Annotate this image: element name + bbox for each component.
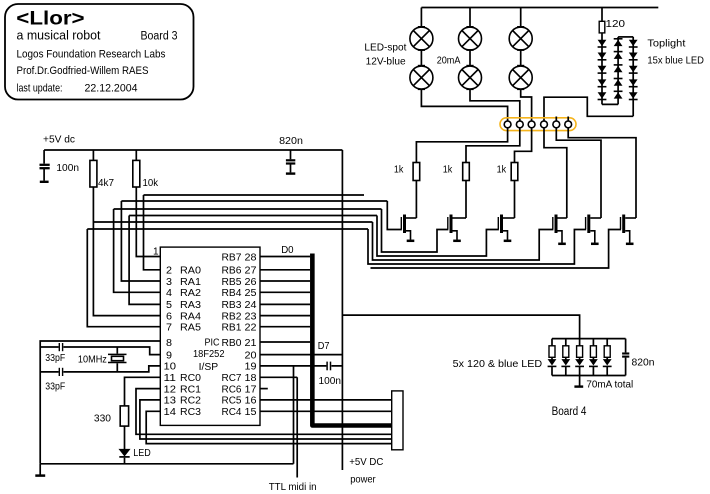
wire RA2 bus line: [114, 208, 382, 210]
svg-text:+5V DC: +5V DC: [349, 456, 383, 468]
svg-text:Board 4: Board 4: [552, 406, 587, 418]
wire lamp col1 to pin1: [421, 89, 507, 121]
transistor Q5: [586, 215, 601, 243]
diode toplight col1 D3: [598, 66, 607, 73]
ground Q1 source: [407, 240, 415, 243]
svg-text:13: 13: [164, 396, 177, 407]
ground board4 stem: [579, 376, 581, 386]
svg-text:5x 120 & blue LED: 5x 120 & blue LED: [453, 358, 543, 370]
svg-text:TTL midi in: TTL midi in: [269, 481, 317, 493]
resistor board4 12R #5 lead: [606, 339, 608, 346]
svg-text:I/SP: I/SP: [199, 362, 219, 373]
capacitor 820n(2) plate2: [622, 356, 629, 358]
svg-text:RA1: RA1: [180, 277, 201, 288]
wire board4 top rail: [552, 338, 626, 340]
wire +12V lamp rail: [421, 7, 658, 9]
wire RA2 to pin4: [114, 209, 161, 292]
connector J1 pin 2: [516, 121, 523, 128]
resistor board4 12R #2 lead: [565, 339, 567, 346]
svg-text:RC5: RC5: [222, 396, 242, 407]
connector J2 body: [392, 391, 403, 450]
diode toplight col3 D12: [629, 53, 638, 60]
svg-text:10k: 10k: [143, 177, 159, 189]
wire pin 14 RC3 to connector: [146, 411, 392, 443]
ground board4 bar: [574, 385, 583, 387]
wire gate feed Q2: [382, 209, 449, 252]
svg-text:Toplight: Toplight: [647, 37, 685, 49]
svg-text:33pF: 33pF: [45, 380, 65, 392]
wire lamp col3 to pin3: [521, 89, 532, 121]
svg-text:330: 330: [94, 413, 111, 425]
svg-text:RC3: RC3: [180, 407, 201, 418]
wire board4 #1 bottom: [551, 366, 553, 375]
wire toplight col3 to pin4: [544, 97, 633, 121]
diode board4 blue LED #4: [589, 359, 598, 366]
diode toplight col1 D4: [598, 79, 607, 86]
lamp col1 tick a: [418, 26, 425, 28]
wire pin 23 to D bus: [260, 315, 310, 317]
diode toplight col2 D6: [614, 39, 623, 46]
svg-text:11: 11: [164, 373, 177, 384]
wire board4 #2 mid: [565, 357, 567, 360]
svg-text:1k: 1k: [497, 164, 507, 176]
resistor board4 12R #3 body: [577, 346, 583, 358]
connector J1 oval: [500, 118, 576, 131]
svg-text:4: 4: [166, 288, 172, 299]
svg-text:12V-blue: 12V-blue: [366, 56, 406, 68]
resistor R 1k #1 body: [413, 163, 420, 181]
wire gate feed Q6: [371, 230, 622, 269]
lamp L3 (col2 upper): [459, 27, 482, 50]
LED D1 triangle: [119, 449, 129, 456]
wire pin 15 to connector: [260, 410, 392, 412]
svg-text:2: 2: [166, 266, 172, 277]
crystal X1 plate bottom: [108, 362, 127, 364]
wire pin 11 RC0 to 330R: [125, 377, 161, 406]
svg-text:last update:: last update:: [17, 83, 63, 95]
svg-text:RB0: RB0: [222, 338, 242, 349]
svg-text:20: 20: [245, 350, 257, 361]
wire toplight col2 stem: [617, 37, 619, 105]
svg-text:33pF: 33pF: [45, 352, 65, 364]
capacitor 820n(2) lead: [625, 339, 627, 353]
capacitor 33pF upper bar1: [58, 343, 60, 351]
svg-text:<Llor>: <Llor>: [16, 7, 84, 29]
wire pin4 to Q4 drain: [544, 128, 567, 218]
svg-text:RC2: RC2: [180, 396, 201, 407]
wire lamp col2 to pin2: [470, 89, 520, 121]
wire pin 22 to D bus: [260, 326, 310, 328]
wire +5V to board4: [342, 315, 579, 339]
svg-text:a musical robot: a musical robot: [17, 28, 101, 43]
wire board4 #2 bottom: [565, 366, 567, 375]
lamp L5 (col3 upper): [509, 27, 532, 50]
svg-text:20mA: 20mA: [437, 55, 461, 67]
wire toplight bottom link: [602, 103, 618, 105]
lamp L6 (col3 lower): [509, 66, 532, 89]
svg-text:6: 6: [166, 311, 172, 322]
resistor R 1k #2 body: [463, 163, 470, 181]
connector J1 pin 3: [528, 121, 535, 128]
lamp col2 tick c: [466, 65, 473, 67]
ground Q4 source: [558, 243, 566, 246]
resistor R 120 top lead: [601, 8, 603, 22]
capacitor 100n plate2: [40, 167, 50, 169]
wire 1k #3 to drain: [514, 181, 516, 219]
resistor R 10k top lead: [135, 150, 137, 160]
svg-text:power: power: [350, 473, 376, 485]
bus D0-D7 thick: [312, 254, 393, 426]
wire gate feed Q3: [377, 216, 499, 257]
svg-text:RB5: RB5: [222, 277, 242, 288]
svg-text:24: 24: [245, 300, 257, 311]
wire 10k to pin1 MCLR: [136, 187, 160, 257]
wire lamp col2 mid stem: [469, 50, 471, 66]
wire toplight col1 stem: [601, 33, 603, 105]
svg-text:Logos Foundation Research Labs: Logos Foundation Research Labs: [17, 49, 166, 61]
wire pin 24 to D bus: [260, 303, 310, 305]
diode toplight col3 D11: [629, 40, 638, 47]
lamp col3 tick b: [517, 49, 524, 51]
svg-text:RC0: RC0: [180, 373, 201, 384]
connector J1 pin 4: [541, 121, 548, 128]
diode toplight col2 D10: [614, 91, 623, 98]
wire RA3 bus line: [129, 215, 377, 217]
wire toplight col3 stem: [632, 37, 634, 116]
capacitor 820n plate2: [286, 162, 295, 164]
wire pin 8 VSS to ground: [40, 341, 160, 464]
wire pin 19 VSS (100n): [260, 365, 342, 367]
capacitor 100n end bar: [40, 181, 49, 183]
svg-text:27: 27: [245, 266, 257, 277]
wire pin 20 VDD to +5V: [260, 354, 342, 356]
lamp col1 tick c: [418, 65, 425, 67]
wire pin 28 to D bus: [260, 256, 310, 258]
svg-text:RC7: RC7: [222, 373, 242, 384]
svg-text:100n: 100n: [319, 375, 342, 387]
lamp col3 tick d: [517, 88, 524, 90]
svg-text:RB7: RB7: [222, 252, 242, 263]
wire pin 17 stub: [260, 388, 268, 390]
wire pin5 to Q5 drain: [556, 128, 601, 218]
svg-text:25: 25: [245, 288, 257, 299]
wire pin 27 to D bus: [260, 269, 310, 271]
diode toplight col3 D14: [629, 79, 638, 86]
resistor board4 12R #5 body: [604, 346, 610, 358]
svg-text:RA0: RA0: [180, 266, 201, 277]
capacitor 820n lead: [290, 150, 292, 159]
diode toplight col3 D13: [629, 66, 638, 73]
lamp col2 tick d: [466, 88, 473, 90]
wire board4 #4 bottom: [592, 366, 594, 375]
svg-text:RC1: RC1: [180, 384, 201, 395]
wire board4 #5 bottom: [606, 366, 608, 375]
wire ground rail: [40, 463, 293, 465]
diode toplight col1 D1: [598, 40, 607, 47]
svg-text:LED: LED: [133, 447, 151, 459]
capacitor 33pF upper bar2: [62, 343, 64, 351]
wire pin6 stub up: [567, 117, 569, 122]
lamp col3 tick c: [517, 65, 524, 67]
ground Q5 source: [591, 243, 599, 246]
capacitor 100n plate1: [40, 164, 50, 166]
wire lamp col2 top stem: [469, 8, 471, 28]
wire 1k #2 to drain: [465, 181, 467, 219]
diode toplight col2 D9: [614, 79, 623, 86]
lamp L4 (col2 lower): [459, 66, 482, 89]
svg-text:15: 15: [245, 407, 257, 418]
wire board4 #3 bottom: [579, 366, 581, 375]
wire RA3 to pin5: [129, 216, 160, 305]
svg-text:LED-spot: LED-spot: [364, 41, 406, 53]
wire toplight top link: [618, 36, 633, 38]
svg-text:26: 26: [245, 277, 257, 288]
connector J1 pin 6: [565, 121, 572, 128]
wire board4 #3 mid: [579, 357, 581, 360]
svg-text:1: 1: [153, 247, 159, 258]
transistor Q4: [553, 215, 567, 243]
wire RA5 to pin7: [87, 229, 160, 327]
diode toplight col3 D15: [629, 92, 638, 99]
ground bar: [35, 474, 45, 477]
crystal X1 link: [116, 347, 118, 372]
ground stem: [39, 464, 41, 475]
wire 330R to LED: [124, 426, 126, 449]
svg-text:15x blue LED: 15x blue LED: [647, 54, 704, 66]
svg-text:100n: 100n: [56, 162, 79, 174]
title box frame: [5, 4, 194, 100]
svg-text:12: 12: [164, 384, 177, 395]
svg-text:Prof.Dr.Godfried-Willem RAES: Prof.Dr.Godfried-Willem RAES: [17, 65, 149, 77]
svg-text:3: 3: [166, 277, 172, 288]
resistor R 10k body: [133, 160, 140, 187]
diode board4 blue LED #5: [603, 359, 612, 366]
wire board4 #1 mid: [551, 357, 553, 360]
svg-text:9: 9: [166, 350, 172, 361]
svg-text:820n: 820n: [279, 135, 303, 147]
wire lamp col3 mid stem: [520, 50, 522, 66]
wire pin 21 to D bus: [260, 341, 310, 343]
resistor board4 12R #1 lead: [551, 339, 553, 346]
capacitor 820n plate1: [286, 159, 295, 161]
wire pin6 to Q6 drain: [568, 128, 636, 218]
lamp L2 (col1 lower): [410, 66, 433, 89]
wire RA0 to pin2: [144, 195, 161, 270]
LED D1 cathode bar: [119, 456, 129, 458]
resistor R 4k7 top lead: [92, 150, 94, 160]
wire pin2 to 1k R2: [466, 128, 520, 163]
wire RA1 bus line: [121, 200, 387, 202]
wire pin 16 to connector: [260, 399, 392, 401]
wire pin 13 RC2 to connector: [140, 400, 392, 439]
svg-text:21: 21: [245, 338, 257, 349]
lamp col1 tick b: [418, 49, 425, 51]
svg-text:RA3: RA3: [180, 300, 201, 311]
wire RA4 bus line: [93, 221, 372, 223]
lamp col3 tick a: [517, 26, 524, 28]
svg-text:10MHz: 10MHz: [78, 353, 107, 365]
wire gate feed Q4: [373, 222, 554, 260]
wire 4k7 to pin6 RA4: [93, 187, 160, 316]
svg-text:RB6: RB6: [222, 266, 242, 277]
wire +5V rail: [44, 149, 342, 151]
wire gate feed Q1: [387, 201, 402, 230]
svg-text:RC4: RC4: [222, 407, 242, 418]
capacitor 100n(2) bar1: [326, 362, 328, 371]
transistor Q2: [448, 215, 466, 240]
transistor Q6: [621, 215, 637, 243]
svg-text:16: 16: [245, 396, 257, 407]
svg-text:RC6: RC6: [222, 384, 242, 395]
capacitor 820n end bar: [286, 172, 295, 174]
wire pin 12 RC1 to connector: [136, 389, 392, 435]
diode board4 blue LED #3: [575, 359, 584, 366]
wire lamp col3 top stem: [520, 8, 522, 28]
lamp col1 tick d: [418, 88, 425, 90]
wire pin 18 RC7 TTL midi in: [260, 377, 297, 477]
connector J1 pin 1: [504, 121, 511, 128]
capacitor 33pF lower bar1: [58, 368, 60, 376]
resistor R 1k #3 body: [511, 163, 518, 181]
wire pin19 VSS to ground rail: [293, 366, 295, 464]
resistor board4 12R #4 lead: [592, 339, 594, 346]
svg-text:28: 28: [245, 252, 257, 263]
svg-text:1k: 1k: [394, 164, 404, 176]
svg-text:RA2: RA2: [180, 288, 201, 299]
svg-text:1k: 1k: [443, 164, 453, 176]
capacitor 33pF lower bar2: [62, 368, 64, 376]
capacitor 100n lead: [43, 150, 45, 164]
diode toplight col2 D8: [614, 65, 623, 72]
svg-text:14: 14: [164, 407, 177, 418]
wire pin1 to 1k R1: [416, 128, 507, 163]
svg-text:18F252: 18F252: [193, 349, 225, 360]
PIC 18F252 U1 body: [160, 247, 260, 425]
resistor board4 12R #4 body: [590, 346, 596, 358]
wire 33pF upper: [40, 347, 160, 355]
svg-text:22: 22: [245, 323, 257, 334]
svg-text:Board 3: Board 3: [141, 31, 178, 43]
svg-text:820n: 820n: [632, 356, 655, 368]
lamp col2 tick a: [466, 26, 473, 28]
capacitor 820n lead2: [290, 164, 292, 172]
svg-text:PIC: PIC: [205, 338, 220, 349]
svg-text:23: 23: [245, 311, 257, 322]
svg-text:RA4: RA4: [180, 311, 201, 322]
svg-text:RB1: RB1: [222, 323, 242, 334]
LED D1 to ground rail: [124, 458, 126, 464]
wire pin5 stub up: [555, 117, 557, 122]
svg-text:8: 8: [166, 338, 172, 349]
wire lamp col1 top stem: [420, 8, 422, 28]
transistor Q3: [498, 215, 514, 240]
lamp col2 tick b: [466, 49, 473, 51]
capacitor 100n(2) bar2: [330, 362, 332, 371]
wire board4 #5 mid: [606, 357, 608, 360]
lamp L1 (col1 upper): [410, 27, 433, 50]
resistor board4 12R #1 body: [549, 346, 555, 358]
svg-text:D7: D7: [318, 340, 330, 352]
resistor board4 12R #3 lead: [579, 339, 581, 346]
svg-text:10: 10: [164, 362, 177, 373]
svg-text:18: 18: [245, 373, 257, 384]
wire 1k #1 to drain: [415, 181, 417, 219]
wire RA1 to pin3: [121, 201, 160, 281]
wire RA0 bus line (dead end): [144, 194, 365, 196]
resistor board4 12R #2 body: [563, 346, 569, 358]
svg-text:22.12.2004: 22.12.2004: [85, 83, 138, 95]
capacitor 820n(2) plate1: [622, 352, 629, 354]
capacitor 100n lead2: [43, 169, 45, 181]
ground Q2 source: [453, 240, 461, 243]
wire board4 bottom rail: [552, 375, 626, 377]
resistor R 4k7 body: [90, 160, 97, 187]
svg-text:RB3: RB3: [222, 300, 242, 311]
svg-text:19: 19: [245, 362, 257, 373]
wire 33pF lower: [40, 366, 160, 372]
transistor Q1: [401, 215, 416, 240]
wire lamp col1 mid stem: [420, 50, 422, 66]
diode board4 blue LED #1: [548, 359, 557, 366]
svg-text:5: 5: [166, 300, 172, 311]
svg-text:RB4: RB4: [222, 288, 242, 299]
svg-text:D0: D0: [281, 244, 294, 256]
wire pin 25 to D bus: [260, 291, 310, 293]
svg-text:120: 120: [606, 18, 626, 30]
wire pin3 to 1k R3: [515, 128, 532, 163]
crystal X1 body: [112, 356, 124, 360]
connector J1 pin 5: [553, 121, 560, 128]
ground Q3 source: [504, 240, 512, 243]
wire board4 #4 mid: [592, 357, 594, 360]
diode toplight col1 D5: [598, 92, 607, 99]
svg-text:7: 7: [166, 323, 172, 334]
svg-text:+5V dc: +5V dc: [43, 134, 75, 146]
diode toplight col1 D2: [598, 53, 607, 60]
wire pin 26 to D bus: [260, 280, 310, 282]
wire +5V vertical power line: [341, 150, 343, 470]
capacitor 820n(2) lead2: [625, 358, 627, 376]
wire gate feed Q5: [368, 229, 586, 264]
svg-text:4k7: 4k7: [98, 177, 114, 189]
svg-text:RB2: RB2: [222, 311, 242, 322]
svg-text:RA5: RA5: [180, 323, 201, 334]
crystal X1 plate top: [108, 353, 127, 355]
ground Q6 source: [626, 243, 634, 246]
resistor R 120 body: [599, 21, 605, 33]
resistor R 330 body: [120, 406, 128, 426]
svg-text:70mA total: 70mA total: [586, 378, 633, 390]
wire RA5 bus line: [87, 228, 368, 230]
svg-text:17: 17: [245, 384, 257, 395]
diode board4 blue LED #2: [561, 359, 570, 366]
diode toplight col2 D7: [614, 52, 623, 59]
